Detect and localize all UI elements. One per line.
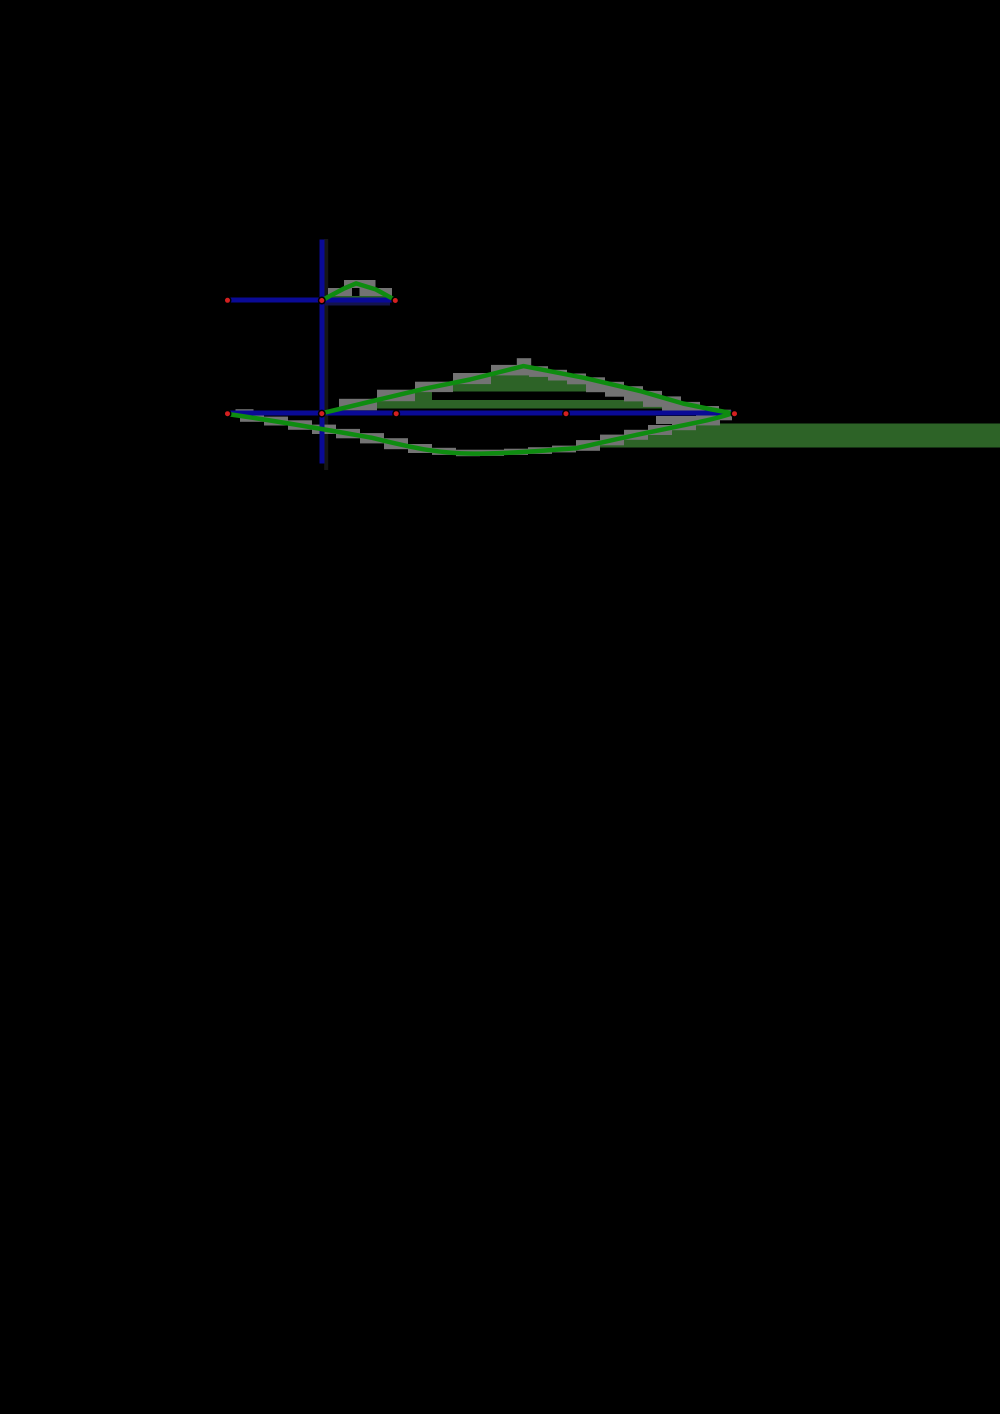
figure 2: x-axis (blue)	[226, 411, 737, 416]
figure 1: x-axis (blue)	[227, 298, 397, 303]
figure 2: upper curve f (green)	[322, 366, 729, 413]
figure 1: bump curve (green)	[322, 283, 396, 300]
figure 2: point b	[731, 410, 739, 418]
extra step strip near right end below axis	[656, 416, 712, 424]
Darboux staircase of lower curve (gray steps)	[240, 413, 264, 422]
figure 2: origin point	[318, 410, 326, 418]
figure 2: partition point x1	[392, 410, 400, 418]
apex step above peak	[517, 358, 531, 366]
figure 2: partition point x2	[562, 410, 570, 418]
figure 2: point a	[224, 410, 232, 418]
faint vertical black companion line (axis shadow)	[324, 239, 328, 470]
figure 1: point (1,0)	[391, 297, 399, 305]
figure 1: black hole in middle step	[352, 288, 360, 297]
figure 1: origin point	[318, 297, 326, 305]
black gap band inside fill	[432, 392, 635, 401]
figure 1: point (-1,0)	[224, 296, 232, 304]
figure 1: gray step rectangles	[328, 288, 344, 296]
lower-sum shaded band (right, below x-axis)	[578, 424, 1000, 448]
figure 1: dark navy interval strip under axis	[325, 303, 390, 306]
figure 1: thin green strip above axis	[326, 296, 392, 299]
small step sliver near left point above axis	[236, 409, 254, 412]
figure 2: lower curve g (green)	[228, 414, 730, 454]
shared y-axis (blue vertical)	[320, 240, 325, 464]
Darboux staircase of upper curve (gray steps)	[339, 399, 377, 411]
region under upper curve (shaded green fill)	[339, 366, 713, 409]
